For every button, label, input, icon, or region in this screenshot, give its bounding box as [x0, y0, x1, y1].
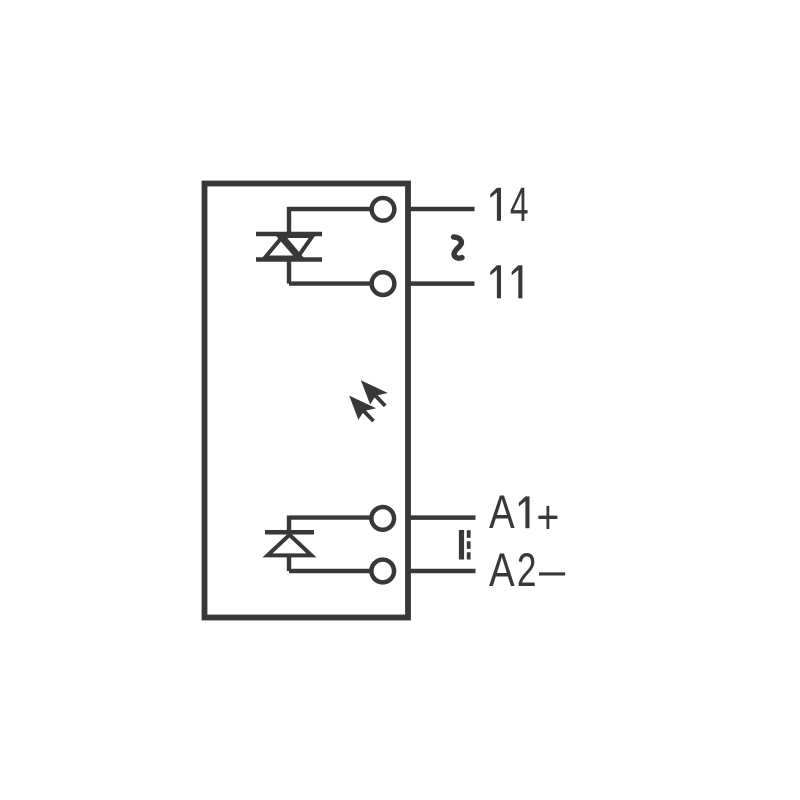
diode D1 cathode bar [265, 530, 314, 535]
wire: terminal A1 to diode (horizontal) [289, 515, 372, 519]
svg-text:–: – [539, 543, 566, 596]
wire: lead to label A2- [411, 569, 476, 574]
terminal circle A1 [371, 507, 394, 530]
label A1+ [489, 487, 559, 544]
svg-text:A: A [489, 544, 515, 596]
optocoupler light arrow lower [349, 396, 376, 422]
optocoupler light arrow upper [361, 380, 388, 406]
triac V1 top bar [256, 232, 322, 237]
svg-text:+: + [537, 491, 560, 543]
svg-text:A: A [489, 487, 515, 539]
terminal circle 14 [372, 198, 395, 221]
wire: triac bottom bar down [287, 260, 291, 284]
triac V1 down-pointing triangle [279, 236, 313, 258]
wire: to terminal A2 (horizontal) [289, 569, 372, 573]
diode D1 triangle (anode, pointing up) [268, 535, 312, 556]
wire: lead to label A1+ [411, 515, 476, 520]
label 11 [490, 265, 522, 298]
wire: vertical drop to diode cathode [287, 516, 291, 533]
wire: lead to label 11 [411, 281, 475, 286]
svg-text:4: 4 [510, 177, 529, 231]
DC symbol dashed bar [467, 530, 471, 559]
terminal circle 11 [372, 272, 395, 295]
wire: vertical drop to triac top bar [287, 207, 291, 234]
wire: lead to label 14 [411, 207, 475, 212]
module outline box [205, 184, 409, 618]
AC symbol (vertical tilde) [454, 237, 463, 258]
label A2- [489, 543, 566, 597]
triac V1 bottom bar [256, 257, 322, 262]
wire: diode anode down [287, 555, 291, 571]
terminal circle A2 [371, 560, 394, 583]
triac V1 up-pointing triangle [265, 236, 301, 258]
svg-text:2: 2 [517, 543, 537, 596]
wire: to terminal 11 (horizontal) [289, 281, 373, 285]
label 14 [490, 177, 528, 231]
wire: terminal 14 to triac (horizontal) [289, 207, 373, 211]
DC symbol solid bar [459, 530, 464, 560]
